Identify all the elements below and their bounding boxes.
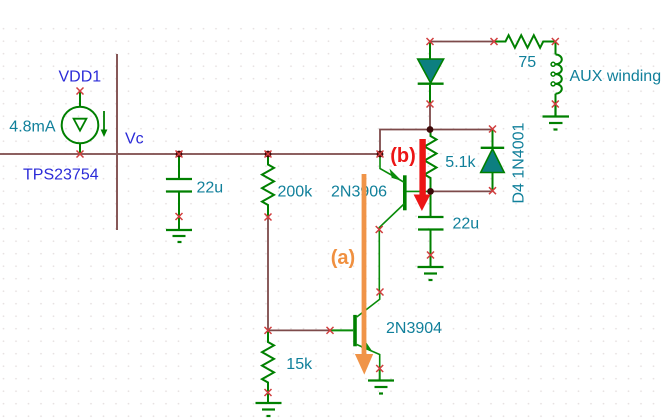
svg-text:D4 1N4001: D4 1N4001 [511, 122, 528, 203]
transistor Q2 2N3904 (NPN) [331, 293, 380, 380]
transistor Q1 2N3906 (PNP, mirrored) [379, 155, 428, 230]
ground below C1 [166, 230, 192, 242]
svg-text:2N3906: 2N3906 [331, 183, 387, 200]
diode D3 (top, anode up) [418, 42, 444, 104]
svg-text:15k: 15k [286, 356, 313, 373]
resistor 15k [262, 330, 274, 402]
inductor AUX winding [551, 42, 562, 105]
resistor 75 [495, 35, 556, 48]
svg-text:22u: 22u [453, 216, 480, 233]
wire 5.1k bottom to D4 bottom [431, 190, 493, 192]
ground below inductor [543, 104, 570, 130]
svg-text:VDD1: VDD1 [59, 68, 102, 85]
node dot at C1 [176, 151, 183, 158]
node dot at PNP emitter [377, 151, 384, 158]
annotation arrow (b) [414, 139, 431, 211]
annotation arrow (a) [355, 174, 373, 375]
svg-text:TPS23754: TPS23754 [23, 167, 99, 184]
svg-text:4.8mA: 4.8mA [9, 119, 56, 136]
diode D4 1N4001 (anode down) [481, 129, 505, 191]
svg-text:(a): (a) [331, 247, 355, 269]
terminal x marks [77, 38, 559, 396]
wire diode bottom to node [429, 105, 431, 130]
capacitor C1 22u [166, 154, 192, 229]
capacitor C2 22u [418, 192, 444, 266]
wire PNP collector to NPN collector [378, 230, 380, 292]
svg-text:22u: 22u [197, 180, 224, 197]
current source VDD1 [62, 91, 108, 154]
wire rail-to-5.1k top link [380, 130, 493, 155]
svg-text:200k: 200k [278, 183, 314, 200]
wire 200k bottom to 2N3904 base [268, 217, 330, 330]
node dot at 5.1k top [427, 126, 434, 133]
svg-text:5.1k: 5.1k [445, 154, 476, 171]
svg-text:(b): (b) [390, 145, 416, 167]
ground below 15k [256, 403, 282, 416]
ground below C2 [418, 267, 444, 280]
node dot at 5.1k bottom [427, 188, 434, 195]
node dot at 200k [265, 151, 272, 158]
ground below Q2 emitter [368, 381, 394, 394]
svg-text:Vc: Vc [125, 131, 144, 148]
resistor 200k [262, 155, 274, 217]
wire TPS23754 boundary line [116, 54, 118, 230]
resistor 5.1k [425, 130, 437, 191]
wire main rail Vc [0, 153, 380, 155]
svg-text:75: 75 [518, 54, 536, 71]
wire top rail [430, 41, 494, 43]
svg-text:2N3904: 2N3904 [386, 320, 442, 337]
svg-text:AUX winding: AUX winding [570, 68, 661, 85]
